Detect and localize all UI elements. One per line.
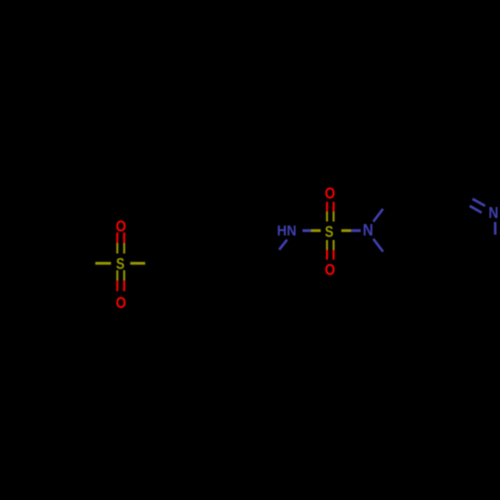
bond S1=O2 lower double bond (olive halves near S1) — [116, 270, 118, 281]
bond S2=O4 lower double bond (olive halves near S2) — [326, 240, 328, 250]
bond N3-C down (N half, blue) — [494, 222, 497, 235]
bond S2-N2 (S half, olive) — [341, 229, 351, 232]
svg-text:N: N — [363, 222, 374, 240]
svg-text:O: O — [116, 295, 126, 312]
bond S1=O1 upper double bond (olive halves near S1) — [116, 243, 118, 254]
bond C=N3 main line (N half, blue) — [473, 199, 486, 206]
bond S2=O3 upper double bond (red halves near O3) — [326, 202, 328, 212]
svg-text:N: N — [489, 205, 499, 222]
bond S2-N2 (N half, blue) — [351, 229, 361, 232]
bond S1=O2 lower double bond (red halves near O2) — [116, 281, 118, 292]
svg-text:O: O — [325, 262, 335, 279]
svg-text:HN: HN — [277, 223, 296, 240]
bond S2=O4 lower double bond (red halves near O4) — [326, 250, 328, 260]
bond N2-C ring upper (N half, blue) — [373, 209, 383, 222]
svg-text:S: S — [325, 224, 334, 241]
bond S2=O3 upper double bond (olive halves near S2) — [326, 212, 328, 222]
bond S1-C(aryl) (S half, olive) — [130, 262, 145, 265]
svg-text:S: S — [116, 256, 125, 273]
bond N1-CH2 (N half, blue) — [279, 240, 287, 250]
bond N1-S2 (S half, olive) — [311, 229, 321, 232]
svg-text:O: O — [325, 185, 335, 202]
bond C=N3 inner parallel line (N half, blue) — [470, 206, 482, 213]
bond CH3-S1 (S half, olive) — [95, 262, 111, 265]
bond N2-C ring lower (N half, blue) — [373, 239, 383, 252]
svg-text:O: O — [116, 218, 126, 235]
bond S1=O1 upper double bond (red halves near O1) — [116, 233, 118, 244]
bond N1-S2 (N half, blue) — [303, 229, 312, 232]
